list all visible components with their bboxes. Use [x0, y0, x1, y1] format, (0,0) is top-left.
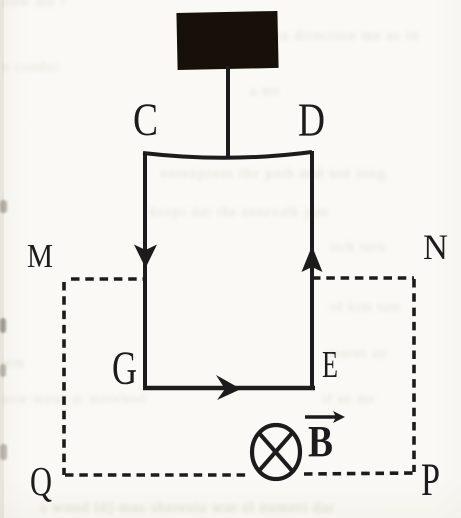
- field symbol cross stroke 2: [258, 432, 293, 472]
- faint bleed-through text band y170: [160, 166, 387, 183]
- loop left wire C-G: [143, 152, 147, 389]
- field region dashed bottom P side: [304, 473, 414, 474]
- current arrow up on right wire: [302, 246, 323, 272]
- field symbol cross stroke 1: [259, 433, 294, 473]
- svg-text:Q: Q: [30, 458, 52, 504]
- faint bleed-through text band y65 left: [2, 60, 59, 76]
- faint bleed-through text band y36 right: [268, 28, 419, 45]
- field region dashed bottom Q side: [65, 473, 248, 477]
- faint left scan edge: [0, 0, 4, 518]
- svg-text:N: N: [423, 227, 448, 267]
- svg-text:P: P: [421, 454, 440, 506]
- loop bottom wire G-E: [143, 386, 315, 391]
- current arrow right on bottom wire: [216, 375, 241, 400]
- faint bleed-through text band y300: [330, 300, 401, 316]
- faint bleed-through text band y245 right: [330, 240, 386, 256]
- current arrow down on left wire: [134, 245, 157, 269]
- field region dashed top-right segment N side: [312, 276, 414, 280]
- faint bleed-through text band y350: [328, 346, 387, 362]
- loop right wire D-E: [310, 151, 314, 389]
- faint bleed-through bottom band: [40, 500, 335, 517]
- svg-text:M: M: [27, 238, 53, 275]
- faint bleed-through text band y395: [2, 392, 147, 408]
- svg-text:C: C: [133, 94, 158, 146]
- loop top wire C-D: [143, 152, 312, 158]
- svg-text:E: E: [322, 344, 338, 386]
- faint bleed-through text band y90: [250, 84, 281, 100]
- vector arrow over B: [305, 415, 336, 418]
- svg-text:B: B: [308, 417, 333, 466]
- hanger wire from block to loop: [226, 66, 230, 156]
- svg-text:G: G: [112, 342, 137, 395]
- faint bleed-through text band top-left: [2, 0, 66, 11]
- faint bleed-through text band y360 left: [2, 356, 25, 372]
- faint bleed-through text band y210: [150, 205, 329, 221]
- field region dashed top-left segment M side: [71, 277, 145, 281]
- field into page symbol circle: [252, 425, 300, 479]
- faint bleed-through text band y395 right: [322, 392, 376, 408]
- support block (hatched mass at top): [176, 11, 278, 70]
- svg-text:D: D: [298, 94, 325, 147]
- field region dashed left side M-Q: [62, 282, 66, 475]
- field region dashed right side N-P: [412, 279, 416, 472]
